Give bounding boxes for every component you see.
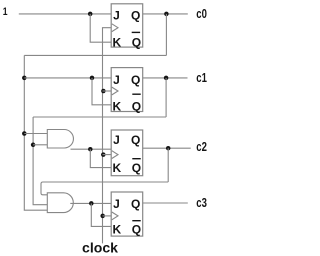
svg-text:J: J bbox=[113, 197, 120, 211]
junction J-K tie FF3 bbox=[89, 201, 94, 206]
svg-text:1: 1 bbox=[3, 6, 8, 18]
svg-text:J: J bbox=[113, 73, 120, 87]
svg-text:J: J bbox=[113, 9, 120, 23]
flip-flop U3 box bbox=[111, 192, 143, 236]
svg-text:c1: c1 bbox=[196, 70, 207, 85]
flip-flop U1 box bbox=[111, 68, 143, 112]
svg-text:Q: Q bbox=[131, 73, 140, 87]
clock triangle U0 bbox=[112, 24, 118, 32]
junction clock to U1 bbox=[101, 89, 106, 94]
junction rail A to AND1 bbox=[22, 131, 27, 136]
wire from 1 to J of FF0 bbox=[19, 13, 111, 15]
svg-text:K: K bbox=[112, 35, 121, 49]
flip-flop U2 box bbox=[111, 130, 143, 176]
and-gate G1 bbox=[47, 130, 73, 149]
node c1 junction bbox=[164, 76, 169, 81]
overbar Qbar U1 bbox=[132, 93, 140, 95]
svg-text:Q: Q bbox=[132, 100, 141, 114]
svg-text:Q: Q bbox=[132, 161, 141, 175]
node c2 junction bbox=[166, 146, 171, 151]
wire tie drop to K FF0 bbox=[90, 14, 111, 42]
clock triangle U2 bbox=[112, 151, 118, 159]
wire tie drop to K FF3 bbox=[91, 203, 111, 226]
wire clock stub U3 bbox=[103, 215, 112, 217]
junction rail A to J FF1 bbox=[22, 76, 27, 81]
junction clock to U3 bbox=[100, 214, 105, 219]
svg-text:c2: c2 bbox=[196, 139, 207, 154]
wire clock stub U2 bbox=[103, 154, 112, 156]
svg-text:Q: Q bbox=[132, 35, 141, 49]
svg-text:K: K bbox=[112, 161, 121, 175]
clock triangle U3 bbox=[112, 212, 118, 220]
wire feedback Q1 left bbox=[33, 116, 166, 118]
junction J-K tie FF1 bbox=[90, 76, 95, 81]
wire rail A to J of FF1 bbox=[24, 77, 111, 79]
wire AND2 output to J FF3 bbox=[70, 202, 111, 204]
wire Q2 output bbox=[143, 147, 191, 149]
wire feedback Q2 down bbox=[167, 148, 169, 182]
svg-text:Q: Q bbox=[131, 9, 140, 23]
svg-text:clock: clock bbox=[82, 241, 118, 256]
svg-text:c0: c0 bbox=[196, 6, 207, 21]
wire clock stub U1 bbox=[103, 90, 112, 92]
svg-text:Q: Q bbox=[131, 197, 140, 211]
junction J-K tie FF2 bbox=[88, 147, 93, 152]
svg-text:c3: c3 bbox=[196, 195, 207, 210]
wire rail B (Q1 net) bbox=[33, 117, 47, 205]
wire rail A to AND1 input 1 bbox=[24, 133, 47, 135]
junction J-K tie FF0 bbox=[88, 12, 93, 17]
overbar Qbar U3 bbox=[132, 220, 140, 222]
wire rail A (Q0 net) bbox=[24, 55, 47, 210]
node c0 junction bbox=[164, 12, 169, 17]
wire AND1 output to J FF2 bbox=[71, 148, 112, 150]
junction rail B to AND1 bbox=[31, 143, 36, 148]
wire Q0 output bbox=[143, 13, 188, 15]
wire feedback Q1 down bbox=[165, 78, 167, 117]
svg-text:K: K bbox=[112, 100, 121, 114]
wire tie drop to K FF1 bbox=[92, 78, 111, 105]
junction clock to U2 bbox=[101, 152, 106, 157]
wire Q3 output bbox=[143, 202, 188, 204]
clock triangle U1 bbox=[112, 87, 118, 95]
wire feedback Q2 left bbox=[41, 182, 168, 195]
svg-text:J: J bbox=[113, 133, 120, 147]
svg-text:K: K bbox=[112, 223, 121, 237]
flip-flop U0 box bbox=[111, 4, 143, 47]
and-gate G2 bbox=[47, 193, 73, 213]
overbar Qbar U2 bbox=[132, 158, 140, 160]
svg-text:Q: Q bbox=[132, 223, 141, 237]
overbar Qbar U0 bbox=[132, 31, 140, 33]
wire Q1 output bbox=[143, 77, 188, 79]
wire clock rail bbox=[103, 28, 112, 244]
wire feedback Q0 left bbox=[24, 54, 166, 56]
wire feedback Q0 down bbox=[165, 14, 167, 56]
wire tie drop to K FF2 bbox=[90, 149, 111, 167]
wire rail B to AND1 input 2 bbox=[33, 144, 47, 146]
svg-text:Q: Q bbox=[131, 133, 140, 147]
